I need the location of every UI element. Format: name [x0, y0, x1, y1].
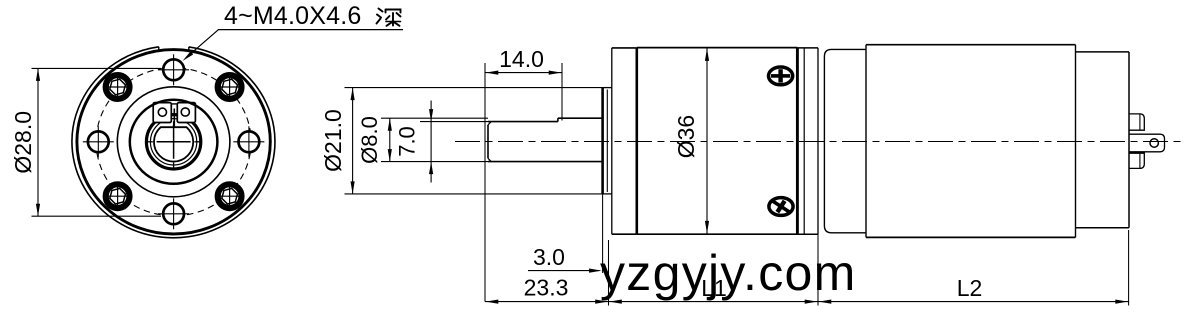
- dim L1 dimension line: [609, 301, 819, 303]
- svg-text:7.0: 7.0: [395, 126, 420, 157]
- right M4 hole: [233, 126, 264, 157]
- gearbox front plate bottom edge: [612, 233, 637, 235]
- motor adapter ring section: [797, 47, 818, 49]
- dim L2 dimension line: [818, 301, 1129, 303]
- dim 7.0 extension (flat) left: [420, 121, 488, 123]
- svg-text:Ø8.0: Ø8.0: [357, 116, 382, 164]
- shaft bottom line: [488, 161, 603, 163]
- shaft flat top line: [488, 121, 558, 123]
- shaft tip end face: [487, 125, 489, 158]
- gearbox front plate top edge: [612, 47, 637, 49]
- gearbox rear face (thick): [796, 48, 799, 235]
- front view gearbox inner circle: [117, 87, 230, 197]
- assembly screw top-right: [218, 75, 242, 99]
- dim Ø28.0 dimension line: [37, 68, 39, 216]
- ring gap top bar: [171, 103, 177, 105]
- shaft center crosshair: [157, 141, 191, 143]
- dim 14.0 dimension line: [485, 72, 562, 74]
- svg-text:3.0: 3.0: [533, 244, 565, 270]
- dim Ø8/7.0 extension bottom: [381, 161, 488, 163]
- svg-text:yzgyjy.com: yzgyjy.com: [600, 245, 857, 301]
- motor adapter inner line: [803, 48, 805, 234]
- bottom M4 hole: [158, 198, 189, 229]
- terminal tab with hole: [1129, 134, 1165, 152]
- plate face extension line down: [608, 240, 610, 306]
- motor mounting face line: [817, 48, 819, 234]
- front view bearing boss circle (bold): [130, 100, 218, 184]
- svg-text:4~M4.0X4.6: 4~M4.0X4.6: [224, 2, 362, 30]
- dim 14.0 extension right (flat end): [561, 63, 563, 121]
- shaft tip chamfer bottom: [488, 158, 491, 161]
- left M4 hole: [83, 126, 114, 157]
- right ear hole: [181, 108, 189, 116]
- retaining ring inner: [150, 119, 196, 165]
- end cap extension line down: [1128, 230, 1130, 306]
- shaft tip chamfer top: [488, 122, 491, 125]
- dim 3.0 leader line: [528, 270, 600, 272]
- motor can top edge: [866, 44, 1076, 46]
- motor can rear edge: [1075, 45, 1077, 238]
- dim Ø28.0 extension line top: [32, 67, 162, 69]
- motor front housing with rounded corners: [824, 49, 866, 232]
- gearbox boss chamfer line: [606, 90, 608, 193]
- gearbox boss bottom edge: [603, 193, 612, 195]
- label CJK deep character (hand drawn): [377, 9, 401, 26]
- gearbox body top edge: [637, 47, 798, 49]
- retaining ring right ear: [177, 103, 195, 123]
- motor end cap top edge: [1076, 51, 1130, 53]
- motor face extension line down: [817, 234, 819, 305]
- motor can front face: [865, 45, 867, 238]
- left ear hole: [158, 108, 166, 116]
- svg-text:Ø28.0: Ø28.0: [10, 111, 36, 174]
- top M4 hole: [158, 54, 189, 85]
- svg-text:L2: L2: [957, 275, 983, 301]
- dim Ø28.0 extension line bottom: [32, 215, 162, 217]
- dim 14.0 extension left (shaft tip): [484, 63, 486, 302]
- dim Ø8.0 dimension line: [389, 118, 391, 161]
- motor end cap bottom edge: [1076, 227, 1130, 229]
- dim Ø21.0 extension bottom: [345, 193, 603, 195]
- motor end cap rear face: [1128, 52, 1130, 228]
- assembly screw top-left: [106, 75, 130, 99]
- output shaft D-section: [154, 127, 193, 161]
- boss face extension line down: [602, 194, 604, 273]
- svg-text:14.0: 14.0: [499, 46, 544, 72]
- svg-text:23.3: 23.3: [524, 275, 569, 301]
- leader line for tapped holes: [186, 30, 403, 58]
- gearbox screw bottom (side view): [769, 198, 793, 216]
- dim 7.0 dimension line with outside arrows: [430, 101, 432, 183]
- gearbox boss top edge: [603, 87, 612, 89]
- dim Ø21.0 extension top: [345, 87, 603, 89]
- dim 23.3 dimension line: [485, 301, 609, 303]
- flange notch step right: [188, 47, 190, 50]
- assembly screw bottom-left: [106, 184, 130, 208]
- rear boss bottom tab: [1129, 153, 1144, 168]
- rear boss top tab: [1129, 114, 1144, 130]
- flange notch step left: [158, 47, 160, 50]
- gearbox boss front face (thick): [601, 88, 604, 194]
- retaining ring outer (bold): [146, 115, 200, 169]
- gearbox plate/body joint (thick): [635, 48, 638, 234]
- shaft top line: [558, 117, 603, 119]
- gearbox body bottom edge: [637, 233, 798, 235]
- terminal hole: [1150, 139, 1158, 147]
- gearbox screw top (side view): [769, 67, 793, 85]
- dim Ø21.0 dimension line: [352, 88, 354, 194]
- svg-text:Ø36: Ø36: [673, 115, 699, 158]
- dim Ø36 dimension line: [706, 48, 708, 235]
- front view outer flange circle (thin, with top notch gap): [72, 47, 275, 238]
- svg-text:Ø21.0: Ø21.0: [320, 109, 346, 172]
- gearbox front plate face: [611, 48, 613, 234]
- assembly screw bottom-right: [218, 184, 242, 208]
- front view case circle (bold): [77, 50, 270, 234]
- dim Ø8.0 extension top: [381, 117, 488, 119]
- bolt circle (dashed): [96, 68, 251, 216]
- side view center line: [455, 141, 1185, 143]
- shaft flat step: [557, 118, 559, 121]
- ring gap center pin: [173, 109, 175, 127]
- motor can bottom edge: [866, 236, 1076, 238]
- retaining ring left ear: [153, 103, 171, 123]
